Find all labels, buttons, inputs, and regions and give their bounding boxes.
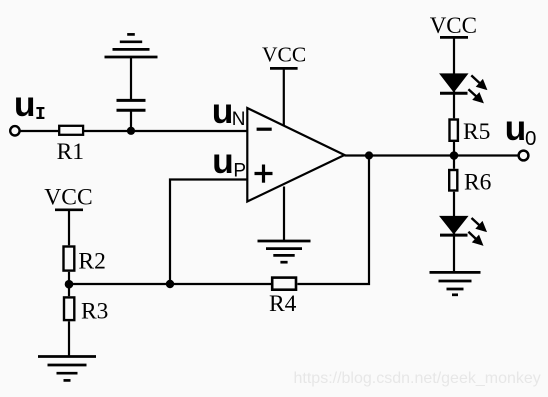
node E (output / LED branch junction) — [450, 151, 459, 160]
svg-text:VCC: VCC — [430, 13, 477, 38]
ground (left) — [38, 357, 96, 381]
resistor R1 — [59, 126, 83, 135]
node B (uP / R4 junction) — [166, 280, 174, 288]
wire node A to capacitor — [130, 111, 132, 131]
terminal uO — [519, 151, 529, 161]
wire LED D2 to ground — [453, 233, 455, 272]
op-amp U1 — [247, 108, 344, 202]
wire op-amp to ground — [283, 187, 285, 242]
terminal uI — [10, 126, 19, 135]
resistor R6 — [449, 170, 457, 191]
svg-text:u: u — [505, 108, 527, 148]
VCC bar (right) — [440, 36, 468, 39]
label uI — [14, 84, 46, 125]
capacitor C1 — [117, 100, 146, 110]
resistor R2 — [64, 247, 75, 271]
op-amp minus symbol — [257, 128, 272, 131]
node C (divider junction) — [65, 280, 74, 289]
wire R6 to LED D2 — [453, 192, 455, 217]
svg-text:R5: R5 — [463, 119, 490, 145]
svg-text:https://blog.csdn.net/geek_mon: https://blog.csdn.net/geek_monkey — [294, 370, 541, 387]
wire uP input — [170, 180, 247, 285]
svg-text:R4: R4 — [269, 291, 297, 317]
svg-text:VCC: VCC — [262, 43, 306, 67]
wire VCC to LED D1 — [453, 37, 455, 75]
wire op-amp output to terminal — [345, 154, 519, 156]
svg-text:0: 0 — [525, 127, 536, 150]
svg-text:u: u — [14, 84, 36, 124]
wire VCC to R2 — [68, 210, 70, 246]
LED D2 — [440, 217, 468, 236]
svg-text:P: P — [233, 161, 246, 182]
label uP — [212, 141, 246, 182]
svg-text:u: u — [212, 141, 234, 181]
svg-text:R3: R3 — [81, 299, 108, 325]
VCC bar (left) — [55, 208, 83, 211]
wire R4 to output (feedback) — [297, 156, 369, 285]
resistor R3 — [64, 297, 74, 320]
wire capacitor to top ground — [130, 57, 132, 100]
op-amp plus symbol — [255, 165, 273, 183]
wire node C to R4 — [69, 283, 271, 285]
ground (right) — [430, 272, 481, 294]
ground (op-amp) — [258, 241, 311, 262]
svg-text:VCC: VCC — [44, 185, 92, 211]
svg-text:R2: R2 — [78, 249, 105, 275]
svg-text:u: u — [212, 91, 234, 131]
LED D1 light arrows — [468, 75, 485, 101]
wire VCC to op-amp — [283, 68, 285, 125]
VCC bar (op-amp) — [270, 67, 298, 70]
ground (top, inverted) — [105, 34, 158, 57]
wire R2 to R3 — [68, 272, 70, 296]
resistor R5 — [450, 120, 458, 141]
wire R5 to R6 — [453, 142, 455, 169]
svg-text:I: I — [35, 105, 46, 125]
label uO — [505, 108, 537, 150]
wire LED D1 to R5 — [453, 91, 455, 118]
svg-text:N: N — [232, 109, 246, 130]
node A (input junction) — [127, 127, 135, 135]
svg-text:R1: R1 — [57, 139, 84, 165]
node D (output feedback junction) — [365, 151, 373, 159]
wire R3 to ground — [68, 321, 70, 356]
resistor R4 — [272, 278, 296, 290]
wire input uI to op-amp inverting input — [20, 130, 248, 132]
svg-text:R6: R6 — [464, 170, 492, 196]
LED D2 light arrows — [468, 218, 485, 244]
LED D1 — [440, 74, 468, 93]
label uN — [212, 91, 246, 131]
